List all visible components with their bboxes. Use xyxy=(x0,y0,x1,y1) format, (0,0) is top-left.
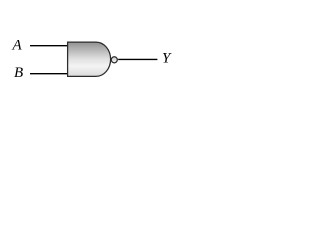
NAND gate U1 body xyxy=(68,42,111,76)
svg-text:B: B xyxy=(14,65,23,81)
wire A input xyxy=(30,45,68,47)
svg-text:A: A xyxy=(12,37,23,53)
svg-text:Y: Y xyxy=(162,51,172,67)
wire Y output xyxy=(118,58,157,60)
inversion bubble xyxy=(111,57,117,63)
wire B input xyxy=(30,73,68,75)
